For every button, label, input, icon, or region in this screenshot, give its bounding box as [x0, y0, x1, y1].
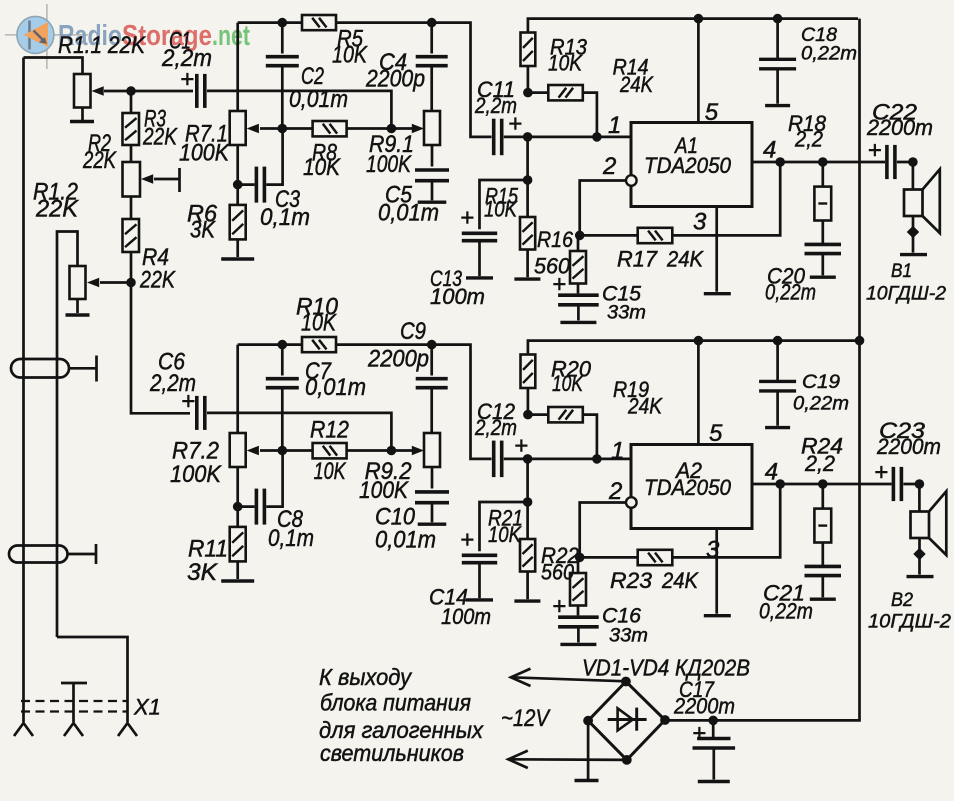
wire output to R24 — [821, 484, 824, 509]
wire C15 to ground — [577, 306, 580, 321]
ground C17 — [698, 780, 730, 783]
svg-text:C16: C16 — [602, 605, 641, 628]
wire C5 to ground — [431, 182, 434, 201]
node rail/C9 — [427, 340, 437, 350]
terminal bar R2 wiper — [178, 168, 181, 192]
wire node to R22 — [577, 557, 580, 573]
node R21/C14 — [523, 497, 533, 507]
wire node to R14 — [528, 91, 548, 94]
wire R1.2 to ground — [76, 299, 79, 313]
node speaker bottom B1 — [907, 226, 919, 238]
wire R7.2 wiper — [260, 449, 282, 452]
svg-text:24K: 24K — [661, 568, 699, 593]
wire C10 to ground — [431, 504, 434, 523]
ground C5 — [418, 200, 447, 203]
wiper arrow R2 — [141, 174, 153, 184]
svg-text:22K: 22K — [35, 196, 79, 223]
wire pin2 to feedback node ch2 — [580, 503, 627, 558]
svg-text:100K: 100K — [170, 461, 222, 488]
node bridge AC bottom — [622, 755, 632, 765]
ground bridge — [575, 779, 599, 782]
svg-text:5: 5 — [709, 420, 723, 447]
wire C7 to wiper line — [281, 389, 284, 451]
wire node to C1 — [131, 90, 193, 93]
node R15/C13 — [523, 175, 533, 185]
wire tone rail to input cap ch1 — [336, 23, 492, 137]
resistor R20 — [521, 355, 536, 389]
svg-text:+: + — [460, 205, 474, 232]
svg-text:2200m: 2200m — [673, 694, 735, 719]
op-amp A1 TDA2050 — [631, 123, 752, 207]
svg-text:2,2m: 2,2m — [474, 93, 517, 118]
svg-text:100K: 100K — [359, 477, 409, 504]
svg-text:1: 1 — [608, 112, 621, 139]
node speaker top B2 — [915, 479, 925, 489]
node rail/C2 — [278, 18, 288, 28]
wire C18 to ground — [776, 70, 779, 104]
ground speaker B2 — [907, 575, 934, 578]
wire jack2 tip — [68, 553, 97, 556]
wire node to C8 — [238, 505, 255, 508]
wire output to R18 — [821, 162, 824, 187]
pin 2 inverting input A2 — [626, 497, 637, 508]
node rail/C7 — [278, 340, 288, 350]
wire main supply bus right — [665, 19, 860, 721]
wire AC input top — [511, 677, 626, 681]
wire R1.2 top to input bus 2 — [57, 232, 78, 638]
wire node to C6 — [131, 283, 190, 414]
wire R21 to ground — [526, 572, 529, 600]
svg-text:33m: 33m — [609, 626, 648, 647]
wire to C7 — [281, 345, 284, 376]
wire R13 to node — [527, 66, 530, 93]
wire rail to C19 — [776, 341, 779, 381]
wire left input bus (hot) — [22, 58, 25, 723]
wire node to C3 — [238, 183, 255, 186]
node R13/R14 — [523, 88, 533, 98]
svg-text:+: + — [874, 459, 888, 486]
ground C13 — [466, 276, 493, 279]
wire to C4 — [430, 23, 433, 54]
svg-text:светильников: светильников — [320, 740, 464, 766]
capacitor C15 — [558, 295, 599, 305]
svg-text:22K: 22K — [139, 267, 176, 294]
capacitor C10 — [415, 492, 449, 503]
node output/feedback ch2 — [775, 479, 785, 489]
svg-text:2,2m: 2,2m — [149, 370, 196, 397]
svg-text:VD1-VD4 КД202В: VD1-VD4 КД202В — [582, 655, 750, 681]
node output/feedback ch1 — [775, 157, 785, 167]
capacitor C20 — [805, 244, 842, 253]
capacitor C4 — [416, 57, 448, 66]
svg-text:100m: 100m — [430, 284, 485, 309]
node feedback ch2 — [575, 553, 585, 563]
node R4/R1.2 wiper junction — [126, 278, 136, 288]
wire node to C13 — [480, 180, 528, 229]
ground C19 — [765, 426, 790, 429]
capacitor C21 — [805, 566, 842, 575]
diode bridge VD1-VD4 symbol — [608, 708, 647, 731]
resistor R16 — [570, 251, 586, 284]
svg-text:22K: 22K — [82, 147, 117, 174]
svg-text:TDA2050: TDA2050 — [644, 153, 732, 178]
svg-text:4: 4 — [765, 459, 778, 486]
capacitor C7 — [266, 379, 299, 388]
connector X1 dashed line lower — [21, 710, 128, 712]
capacitor C2 — [266, 57, 299, 66]
wire jack1 tip — [69, 367, 97, 370]
svg-text:2: 2 — [602, 153, 616, 180]
node input/R14 — [592, 132, 602, 142]
svg-text:~12V: ~12V — [501, 705, 551, 732]
wire C13 to ground — [478, 242, 481, 277]
wire R19 to input — [583, 415, 597, 459]
svg-text:R12: R12 — [310, 417, 349, 444]
resistor R15 — [520, 217, 535, 250]
wire pin 3 ground ch1 — [715, 207, 718, 292]
node R20/R19 — [523, 410, 533, 420]
node rail/C19 — [773, 336, 783, 346]
svg-text:0,01m: 0,01m — [305, 374, 366, 401]
node rail/pin5 ch2 — [694, 336, 704, 346]
node input/R19 — [592, 454, 602, 464]
terminal bar jack2 — [95, 544, 98, 564]
wire R8 to node — [347, 127, 392, 130]
resistor R23 — [638, 550, 673, 565]
node feedback ch1 — [575, 231, 585, 241]
arrow AC input bottom — [508, 751, 528, 768]
wire C2 to wiper line — [281, 67, 284, 129]
wire R1.1 to ground — [81, 108, 84, 121]
svg-text:10K: 10K — [488, 522, 522, 547]
node supply bus / channel2 rail — [855, 336, 865, 346]
ground R6 — [221, 257, 254, 260]
wire R1.2 wiper to node — [100, 281, 131, 284]
svg-text:0,01m: 0,01m — [378, 200, 439, 227]
wire tone rail left ch1 — [238, 21, 302, 24]
wire R9.1 to C5 — [431, 145, 434, 167]
wire R3 to R2 — [130, 145, 133, 162]
ground speaker B1 — [900, 253, 927, 256]
svg-text:0,22m: 0,22m — [793, 394, 849, 415]
ground R11 — [221, 579, 254, 582]
svg-text:2,2m: 2,2m — [161, 45, 212, 72]
wire C14 to ground — [478, 564, 481, 599]
ground R21 — [514, 599, 540, 602]
logo text RadioStorage.net — [58, 20, 250, 52]
capacitor C11 — [494, 119, 502, 156]
svg-text:0,01m: 0,01m — [375, 527, 436, 554]
ground R15 — [514, 277, 540, 280]
capacitor C6 — [197, 396, 205, 430]
svg-text:24K: 24K — [619, 72, 654, 97]
node C3 tap — [233, 180, 243, 190]
wire tone rail left ch2 — [238, 343, 302, 346]
svg-text:100m: 100m — [441, 604, 491, 629]
wire R16 to C15 — [577, 284, 580, 294]
wire to speaker B2 — [903, 483, 919, 486]
wire R24 to C21 — [821, 543, 824, 566]
svg-text:TDA2050: TDA2050 — [644, 475, 732, 500]
svg-text:10K: 10K — [484, 197, 518, 222]
svg-text:2200p: 2200p — [365, 66, 425, 93]
wire R1.1 wiper to node — [104, 90, 131, 93]
ground R1.2 — [66, 313, 90, 316]
wire to C2 — [281, 23, 284, 54]
ground C18 — [765, 104, 790, 107]
wire C21 to ground — [821, 576, 824, 597]
svg-text:10K: 10K — [548, 51, 583, 76]
wiper arrow R1.2 — [87, 278, 99, 288]
resistor R13 — [521, 33, 536, 67]
node input/R13R15 — [523, 132, 533, 142]
svg-text:2,2: 2,2 — [804, 451, 835, 476]
svg-text:R16: R16 — [537, 227, 574, 252]
wire input node down ch1 — [526, 137, 529, 180]
capacitor C12 — [494, 441, 502, 478]
resistor R12 — [313, 443, 347, 458]
resistor R11 — [230, 527, 246, 562]
svg-text:0,22m: 0,22m — [765, 280, 816, 305]
svg-text:3K: 3K — [187, 559, 218, 586]
resistor R2 (trimmer) — [123, 162, 141, 197]
wire C20 to ground — [821, 254, 824, 275]
svg-text:2,2m: 2,2m — [474, 415, 517, 440]
wire pin 5 supply ch2 — [697, 341, 700, 445]
wire C17 to ground — [712, 748, 715, 780]
svg-text:+: + — [868, 137, 882, 164]
wire node to R23 — [580, 556, 638, 559]
node bridge AC top — [621, 677, 631, 687]
ground C15 — [560, 321, 596, 324]
wire R11 to ground — [236, 561, 239, 579]
wire bridge edge top-left — [588, 682, 626, 721]
wire input node down ch2 — [526, 459, 529, 502]
svg-text:10K: 10K — [314, 458, 347, 485]
wire AC input bottom — [508, 758, 627, 761]
node output/R24 — [818, 479, 828, 489]
wire to R8 — [282, 127, 312, 130]
wire node to R3 — [130, 91, 133, 113]
wire pin2 to feedback node ch1 — [580, 181, 627, 236]
wire rail to C18 — [776, 19, 779, 59]
node wiper line left ch1 — [278, 124, 288, 134]
capacitor C22 — [887, 145, 895, 179]
node speaker bottom B2 — [913, 548, 925, 560]
resistor R24 — [814, 509, 831, 543]
capacitor C5 — [415, 170, 449, 181]
svg-text:10ГДШ-2: 10ГДШ-2 — [868, 611, 951, 633]
capacitor C18 — [759, 59, 796, 69]
node wiper line left ch2 — [278, 446, 288, 456]
node rail/C4 — [427, 18, 437, 28]
pin 2 inverting input A1 — [626, 175, 637, 186]
resistor R14 — [548, 85, 583, 100]
wire to R12 — [282, 449, 312, 452]
ground C16 — [560, 643, 596, 646]
wire R14 to input — [583, 93, 597, 137]
wire R18 to C20 — [821, 221, 824, 244]
wire C16 to ground — [577, 628, 580, 643]
svg-text:0,22m: 0,22m — [801, 44, 857, 65]
potentiometer R7.1 — [230, 111, 246, 145]
svg-text:22K: 22K — [142, 124, 178, 151]
svg-text:.net: .net — [212, 20, 250, 52]
svg-text:560: 560 — [534, 254, 571, 279]
wire C6 to R9.2 wiper line — [207, 413, 391, 451]
wire rail to R7.1 top — [236, 23, 239, 111]
wire R2 wiper — [154, 178, 180, 181]
wire pin 1 input ch2 — [504, 458, 631, 461]
wire node to R15 — [526, 180, 529, 217]
wire R7.2 to R11 — [236, 467, 239, 527]
ground pin 3 A1 — [704, 292, 731, 295]
node bridge DC plus — [660, 715, 670, 725]
svg-text:10ГДШ-2: 10ГДШ-2 — [866, 283, 946, 305]
capacitor C23 — [893, 467, 901, 501]
wire tone rail to input cap ch2 — [336, 345, 492, 459]
capacitor C19 — [759, 381, 796, 391]
svg-text:10K: 10K — [303, 154, 341, 181]
terminal bar jack1 — [95, 356, 98, 382]
potentiometer R1.1 — [74, 74, 91, 108]
X1 middle pin wire — [72, 683, 75, 722]
svg-text:+: + — [692, 720, 706, 747]
wire bridge minus to ground — [587, 721, 590, 780]
wire R9.2 to C10 — [431, 467, 434, 489]
svg-text:100K: 100K — [366, 151, 412, 178]
potentiometer R7.2 — [230, 433, 246, 467]
svg-text:3: 3 — [706, 537, 720, 564]
svg-text:R1.1 22K: R1.1 22K — [58, 32, 146, 59]
resistor R18 — [814, 187, 831, 221]
svg-text:10K: 10K — [552, 371, 584, 396]
wire node to R16 — [577, 235, 580, 251]
node C8 tap — [233, 502, 243, 512]
svg-text:10K: 10K — [332, 42, 368, 69]
wire R7.1 wiper — [260, 127, 282, 130]
svg-text:24K: 24K — [627, 394, 663, 419]
ground C20 — [810, 276, 836, 279]
RadioStorage.net logo circle with transistor — [17, 16, 54, 53]
wire R4 to lower node — [130, 252, 133, 283]
wire R12 to node — [347, 449, 392, 452]
capacitor C14 — [462, 555, 497, 562]
wire to R9.1 wiper — [391, 127, 412, 130]
svg-text:560: 560 — [541, 560, 575, 585]
wire pin 4 output ch1 — [752, 161, 885, 164]
ground C14 — [466, 598, 493, 601]
resistor R8 — [313, 121, 347, 136]
svg-text:2200m: 2200m — [866, 115, 933, 140]
arrow AC input top — [511, 669, 531, 686]
ground C10 — [418, 523, 447, 526]
wire bridge edge top-right — [626, 682, 665, 721]
wire node to R21 — [526, 502, 529, 539]
resistor R21 — [520, 539, 535, 572]
wire node to R17 — [580, 234, 638, 237]
node R1.1 wiper junction — [126, 86, 136, 96]
node wiper line right ch2 — [387, 446, 397, 456]
svg-text:3K: 3K — [190, 217, 216, 244]
node output/R18 — [818, 157, 828, 167]
svg-text:R17: R17 — [617, 247, 658, 272]
svg-text:2: 2 — [608, 478, 622, 505]
node rail/C18 — [773, 14, 783, 24]
ground R1.1 — [70, 120, 94, 123]
wire bridge edge bottom-right — [627, 720, 665, 760]
X1 middle pin bar — [61, 682, 87, 685]
resistor R17 — [638, 228, 673, 243]
potentiometer R1.2 — [70, 266, 86, 299]
input jack connector 2 — [9, 546, 68, 563]
wire pin 3 ground ch2 — [715, 529, 718, 614]
svg-text:4: 4 — [763, 137, 776, 164]
wire pin 1 input ch1 — [504, 136, 631, 139]
svg-text:К выходу: К выходу — [319, 664, 412, 690]
svg-text:+: + — [460, 527, 474, 554]
wire pin 5 supply ch1 — [697, 19, 700, 123]
wire to R9.2 wiper — [391, 449, 412, 452]
node rail/pin5 ch1 — [694, 14, 704, 24]
input jack connector 1 — [11, 359, 69, 378]
wire to C9 — [430, 345, 433, 376]
svg-text:1: 1 — [611, 438, 624, 465]
wire node to R19 — [528, 413, 548, 416]
wire C4 to R9.1 top — [430, 67, 433, 111]
svg-text:3: 3 — [693, 209, 707, 236]
wire C8 to wiper node — [266, 455, 282, 507]
wire supply rail ch2 — [528, 341, 858, 355]
svg-text:2200p: 2200p — [367, 346, 429, 373]
svg-text:X1: X1 — [133, 695, 161, 720]
svg-text:0,1m: 0,1m — [268, 525, 314, 552]
wire R1.1 top feed — [24, 58, 83, 75]
resistor R3 — [123, 113, 140, 145]
capacitor C13 — [462, 233, 497, 240]
wire node to C14 — [480, 502, 528, 551]
wire R20 to node — [527, 388, 530, 415]
svg-text:5: 5 — [705, 99, 719, 126]
svg-text:B1: B1 — [891, 260, 912, 282]
wire R17 to output — [672, 162, 780, 235]
wire R2 to R4 — [130, 197, 133, 220]
wire C9 to R9.2 top — [430, 389, 433, 433]
speaker B2 — [911, 484, 947, 575]
wiper arrow R9.2 — [412, 446, 424, 456]
resistor R6 — [230, 205, 246, 240]
resistor R4 — [123, 219, 140, 252]
wiper arrow R7.1 — [247, 124, 259, 134]
wire rail to R7.2 top — [236, 345, 239, 433]
svg-text:0,22m: 0,22m — [759, 599, 813, 624]
RadioStorage.net logo crosshair — [5, 4, 88, 69]
wire R15 to ground — [526, 250, 529, 278]
wire input bus 2 to X1 — [57, 637, 128, 722]
svg-text:B2: B2 — [891, 589, 913, 611]
node supply bus / C17 — [708, 716, 718, 726]
wiper arrow R9.1 — [412, 124, 424, 134]
potentiometer R9.1 — [424, 111, 440, 145]
capacitor C9 — [416, 379, 448, 388]
svg-text:33m: 33m — [607, 303, 646, 324]
wire C1 to R9.1 wiper line — [207, 91, 391, 129]
ground pin 3 A2 — [704, 614, 731, 617]
X1 pin foot middle — [64, 723, 83, 736]
node wiper line right ch1 — [387, 124, 397, 134]
wire pin 4 output ch2 — [752, 483, 892, 486]
svg-text:10K: 10K — [301, 310, 337, 337]
